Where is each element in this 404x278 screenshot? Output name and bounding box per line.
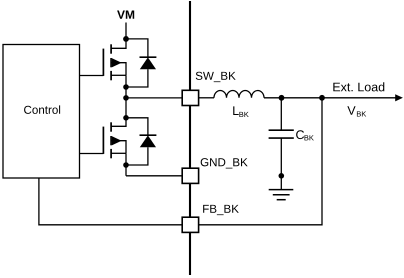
- wire Q2 source to GND_BK pad: [126, 175, 182, 177]
- label Control: [24, 105, 60, 114]
- wire device boundary line: [189, 1, 191, 275]
- label V_BK: [347, 106, 366, 116]
- node FB sense junction: [319, 95, 325, 101]
- control block U1: [3, 45, 80, 179]
- label VM: [117, 10, 134, 18]
- label SW_BK: [196, 72, 236, 82]
- diode D1 (Q1 body diode): [126, 39, 156, 87]
- capacitor C1: [269, 98, 294, 176]
- wire VM stub: [125, 23, 127, 39]
- wire output row to arrow: [282, 97, 397, 99]
- label C_BK: [296, 130, 314, 140]
- node VM junction: [123, 36, 129, 42]
- pin pad GND_BK: [182, 168, 198, 183]
- arrow Ext. Load: [395, 94, 403, 101]
- node SW junction: [123, 95, 129, 101]
- pin pad SW_BK: [182, 90, 198, 105]
- wire Q2 source down to GND row: [125, 153, 127, 176]
- inductor L1: [199, 91, 282, 98]
- node L/C output junction: [279, 95, 285, 101]
- label FB_BK: [203, 205, 239, 215]
- node Q2 source / D2 anode junction: [123, 162, 129, 168]
- transistor Q1 (high-side NMOS): [103, 39, 126, 80]
- wire Q1 source to Q2 drain (SW column): [125, 75, 127, 118]
- wire gate high-side (control to Q1 gate): [80, 75, 104, 77]
- node Q1 source / D1 anode junction: [123, 84, 129, 90]
- pin pad FB_BK: [182, 217, 198, 232]
- wire gate low-side (control to Q2 gate): [80, 153, 104, 155]
- label GND_BK: [201, 158, 248, 168]
- diode D2 (Q2 body diode): [126, 118, 156, 165]
- transistor Q2 (low-side NMOS): [103, 118, 126, 159]
- node C/GND junction: [279, 173, 285, 179]
- node Q2 drain junction: [123, 115, 129, 121]
- wire SW to SW_BK pad: [126, 97, 182, 99]
- label Ext. Load: [333, 82, 384, 91]
- ground: [269, 176, 294, 200]
- wire FB_BK pad to feedback column: [199, 98, 322, 225]
- wire control to FB (down then right): [39, 178, 182, 225]
- label L_BK: [233, 106, 248, 117]
